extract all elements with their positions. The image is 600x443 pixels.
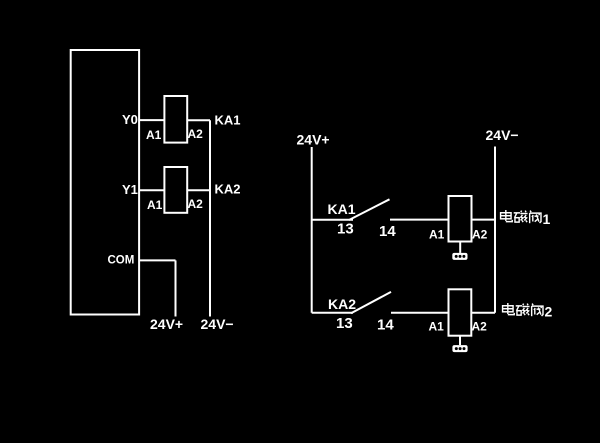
wire 24V- bus left (209, 120, 211, 316)
glyph 阀 (530, 211, 541, 224)
svg-text:KA2: KA2 (215, 181, 241, 196)
glyph 电 (501, 210, 513, 222)
svg-text:KA1: KA1 (215, 112, 241, 127)
svg-text:A1: A1 (429, 320, 445, 334)
relay coil KA1 (164, 96, 187, 143)
wire COM down to 24V+ (175, 260, 177, 316)
svg-text:13: 13 (337, 221, 354, 238)
terminal symbol under valve 1 (452, 253, 467, 260)
svg-text:24V+: 24V+ (150, 316, 183, 332)
svg-text:KA2: KA2 (328, 296, 356, 312)
value label 电磁阀2 (solenoid valve 2) (503, 303, 543, 316)
wire valve 1 to 24V- (472, 219, 496, 221)
wire switch KA2 right to valve 2 (391, 312, 449, 314)
svg-text:24V−: 24V− (486, 127, 519, 143)
wire Y0 to coil KA1 (139, 119, 164, 121)
svg-text:A2: A2 (188, 127, 204, 141)
svg-text:2: 2 (545, 304, 553, 320)
net 24V- rail (right section) (494, 147, 496, 313)
terminal symbol under valve 2 (452, 345, 467, 352)
svg-text:Y0: Y0 (122, 112, 138, 127)
relay coil KA2 (164, 167, 187, 213)
wire valve 1 stem to terminal (459, 242, 461, 253)
svg-text:A2: A2 (472, 228, 488, 242)
svg-text:A2: A2 (188, 197, 204, 211)
wire Y1 to coil KA2 (139, 189, 164, 191)
contact blade KA1 (349, 199, 390, 220)
svg-text:24V−: 24V− (201, 316, 234, 332)
svg-text:COM: COM (108, 255, 135, 267)
svg-text:1: 1 (543, 211, 551, 227)
svg-text:A1: A1 (147, 198, 163, 212)
wire valve 2 stem to terminal (459, 336, 461, 345)
net 24V+ rail (right section) (311, 147, 313, 313)
wire valve 2 to 24V- (471, 312, 495, 314)
glyph 磁 (516, 304, 530, 316)
PLC block (71, 50, 139, 315)
solenoid valve coil box 2 (449, 289, 472, 335)
wire switch KA1 left (312, 219, 353, 221)
svg-text:13: 13 (336, 315, 353, 332)
svg-text:24V+: 24V+ (297, 131, 330, 147)
wire COM horizontal (139, 259, 176, 261)
svg-text:A1: A1 (146, 128, 162, 142)
svg-text:14: 14 (379, 223, 396, 240)
svg-text:KA1: KA1 (328, 201, 356, 217)
value label 电磁阀1 (solenoid valve 1) (501, 210, 541, 223)
svg-text:Y1: Y1 (122, 182, 138, 197)
wire coil KA1 to node KA1 (187, 119, 210, 121)
contact blade KA2 (351, 292, 391, 313)
svg-text:14: 14 (377, 317, 394, 334)
glyph 阀 (532, 304, 543, 317)
svg-text:A2: A2 (472, 320, 488, 334)
wire coil KA2 to node KA2 (187, 189, 210, 191)
solenoid valve coil box 1 (449, 196, 472, 242)
wire switch KA2 left (312, 312, 353, 314)
glyph 电 (503, 303, 515, 315)
wire switch KA1 right to valve 1 (390, 219, 449, 221)
svg-text:A1: A1 (429, 228, 445, 242)
glyph 磁 (514, 211, 528, 223)
